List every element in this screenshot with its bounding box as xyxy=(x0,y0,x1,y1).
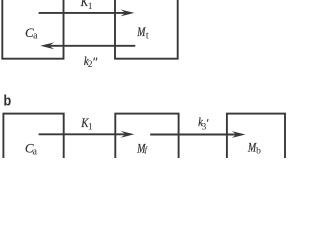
panel b: box Mf (cut off at bottom) xyxy=(115,114,178,174)
svg-text:t: t xyxy=(146,30,149,41)
svg-text:3: 3 xyxy=(202,121,207,132)
svg-text:a: a xyxy=(32,146,37,157)
panel a: arrow k2 shaft (Mt to Ca) xyxy=(48,45,135,47)
panel b: prime of k3 xyxy=(206,119,209,122)
panel b: box Ca (cut off at bottom) xyxy=(3,114,63,174)
panel b: box Mb (cut off at bottom) xyxy=(227,114,285,174)
svg-text:2: 2 xyxy=(88,59,93,70)
panel b: arrow k3 head xyxy=(232,131,246,138)
svg-text:b: b xyxy=(3,91,11,108)
panel b: arrow k3 shaft (Mf to Mb) xyxy=(150,134,238,136)
panel b: arrow K1 head xyxy=(121,131,135,138)
svg-text:1: 1 xyxy=(88,1,93,12)
svg-text:a: a xyxy=(33,31,38,42)
panel a: arrow k2 head xyxy=(40,42,54,49)
panel a: box Mt (top right, cut off at top) xyxy=(115,0,178,59)
panel a: box Ca (top left, cut off at top) xyxy=(2,0,63,59)
panel a: arrow K1 shaft (Ca to Mt) xyxy=(39,12,127,14)
panel a: arrow K1 head xyxy=(121,10,135,17)
panel b: arrow K1 shaft (Ca to Mf) xyxy=(39,133,127,135)
panel a: double prime of k2 xyxy=(93,58,96,61)
svg-text:b: b xyxy=(256,145,261,156)
svg-text:1: 1 xyxy=(88,121,93,132)
